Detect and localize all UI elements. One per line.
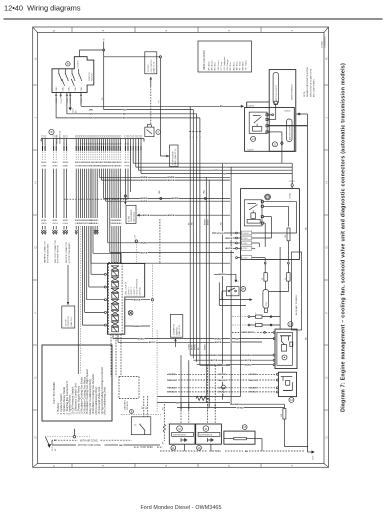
- relay box K4: [278, 372, 296, 396]
- svg-text:HIGH SPEC: HIGH SPEC: [140, 447, 153, 449]
- svg-text:BN: BN: [89, 114, 93, 116]
- svg-text:Green: Green: [218, 61, 220, 67]
- wires to diagnostic connectors: [41, 169, 78, 235]
- svg-text:C234/1: C234/1: [289, 181, 295, 183]
- node 18: [265, 194, 271, 200]
- oil pressure switch 10: [227, 287, 240, 296]
- svg-text:H: H: [34, 181, 38, 183]
- wire row BN/RD 198 with splices: [104, 169, 231, 201]
- relay1 pins: [273, 331, 275, 365]
- svg-text:WIRE COLOURS: WIRE COLOURS: [203, 50, 206, 70]
- connector ring C16: [134, 219, 160, 264]
- svg-text:WHICH ON FOR MODELS WITH: WHICH ON FOR MODELS WITH: [310, 68, 312, 97]
- svg-text:4 SHIFT 3: 4 SHIFT 3: [134, 287, 136, 295]
- box to adaptive damping: [170, 314, 182, 347]
- resistor A/C blower: [196, 396, 210, 400]
- svg-text:F8: F8: [262, 278, 264, 280]
- wire row 242.8: [108, 169, 234, 245]
- svg-text:5: 5: [74, 431, 76, 432]
- svg-text:BN/BU: BN/BU: [204, 219, 206, 225]
- svg-text:BK: BK: [119, 445, 123, 447]
- svg-text:SWITCH: SWITCH: [91, 73, 93, 81]
- cooling fan motor M1: [169, 424, 195, 444]
- svg-text:OG: OG: [44, 223, 47, 225]
- wire rows to main fusebox: [133, 151, 292, 176]
- svg-text:BK/VT: BK/VT: [149, 342, 156, 344]
- svg-text:NO: NO: [123, 109, 127, 111]
- long wire down to relay1: [279, 247, 280, 329]
- svg-text:BK/BU: BK/BU: [138, 338, 145, 340]
- wires to solenoid valve unit: [81, 169, 230, 326]
- solenoid unit labels: [126, 278, 142, 295]
- node junction AC: [73, 436, 75, 438]
- svg-text:BK/BN: BK/BN: [219, 374, 226, 376]
- svg-text:K: K: [325, 57, 329, 59]
- motor earth stubs: [185, 439, 263, 452]
- svg-text:Violet: Violet: [239, 61, 242, 66]
- ground G106 bottom right: [308, 450, 315, 460]
- svg-text:BK: BK: [222, 365, 226, 367]
- svg-text:SWITCHED SUPPLY: SWITCHED SUPPLY: [276, 84, 278, 102]
- connector stubs C234 left: [236, 231, 252, 259]
- svg-text:Lightgreen: Lightgreen: [223, 57, 226, 66]
- node 12: [289, 397, 294, 402]
- wire rows bottom center: [157, 401, 230, 408]
- svg-text:BN/YE: BN/YE: [215, 342, 222, 344]
- node 21: [272, 142, 277, 147]
- svg-text:LG: LG: [224, 67, 226, 70]
- relay pins: [266, 114, 268, 133]
- svg-text:BN/RD: BN/RD: [141, 201, 148, 203]
- svg-text:Orange: Orange: [227, 59, 229, 67]
- svg-text:HARNESS CONNECTOR: HARNESS CONNECTOR: [44, 241, 47, 263]
- svg-text:BN/RD: BN/RD: [195, 343, 197, 350]
- svg-text:B: B: [51, 130, 53, 134]
- svg-text:AUXILIARY FUSEBOX: AUXILIARY FUSEBOX: [295, 294, 298, 315]
- wire BN/OG row2: [67, 98, 197, 130]
- wire row BK/BK 177: [99, 169, 230, 227]
- svg-text:C104C: C104C: [61, 97, 63, 103]
- wire row BN/YE 180: [101, 169, 230, 182]
- ECU pins with numbers: [42, 136, 142, 161]
- box to instrument cluster: [160, 145, 178, 167]
- svg-text:BN: BN: [123, 114, 127, 116]
- svg-text:BN/WH: BN/WH: [133, 326, 141, 328]
- wire below relays: [230, 403, 284, 410]
- node B see also (top): [49, 129, 61, 144]
- svg-text:C234/7: C234/7: [242, 243, 247, 245]
- svg-text:CONTROL: CONTROL: [140, 287, 142, 296]
- svg-text:AIR CONDITIONING: AIR CONDITIONING: [313, 79, 316, 97]
- svg-text:NAW: NAW: [203, 190, 206, 194]
- svg-text:BN: BN: [176, 402, 180, 404]
- svg-text:VT/BU: VT/BU: [188, 344, 190, 350]
- fuse bottom right: [281, 409, 308, 448]
- svg-text:KEY TO ITEMS: KEY TO ITEMS: [52, 382, 56, 404]
- svg-text:BN/BU: BN/BU: [245, 355, 252, 357]
- relay K2 internals: [244, 200, 262, 226]
- relay K1 internals: [249, 112, 267, 133]
- svg-text:DIAGRAMS 5/6: DIAGRAMS 5/6: [58, 131, 61, 144]
- thermal switch top wires: [142, 396, 148, 417]
- svg-text:G104: G104: [73, 109, 75, 113]
- svg-text:C147: C147: [266, 302, 268, 306]
- svg-text:BN/BU: BN/BU: [141, 243, 148, 245]
- svg-text:BN/YE: BN/YE: [226, 238, 233, 240]
- svg-text:COMPUTER: COMPUTER: [68, 316, 70, 327]
- svg-text:5 ELEC PRESSURE: 5 ELEC PRESSURE: [137, 278, 139, 295]
- fusible link switched supply: [273, 72, 278, 104]
- svg-text:E: E: [34, 376, 38, 378]
- svg-text:DIAGRAM 9: DIAGRAM 9: [123, 400, 126, 410]
- solenoid dashed enclosure: [108, 263, 122, 335]
- border frame: [33, 27, 329, 467]
- svg-text:F: F: [325, 312, 329, 314]
- svg-text:VT/OG: VT/OG: [217, 233, 224, 235]
- box to fan temperature sender: [124, 202, 136, 223]
- svg-text:BN/YE: BN/YE: [207, 219, 209, 225]
- svg-text:E: E: [325, 376, 329, 378]
- node earth circle in solenoid unit: [128, 310, 133, 315]
- svg-text:G105: G105: [52, 447, 54, 451]
- svg-text:BK/BU: BK/BU: [169, 392, 176, 394]
- svg-text:BK/GN: BK/GN: [168, 380, 175, 382]
- svg-text:C16: C16: [134, 235, 136, 238]
- arrows for 95-97: [94, 230, 99, 234]
- node 11: [171, 445, 176, 450]
- node key-in circle: [66, 62, 70, 66]
- ground G104: [69, 92, 78, 113]
- svg-text:TO INSTRUMENT: TO INSTRUMENT: [172, 150, 174, 166]
- svg-text:OG: OG: [55, 223, 58, 225]
- svg-text:C104C/6: C104C/6: [78, 61, 80, 68]
- svg-text:RD: RD: [222, 173, 226, 175]
- wire row BU/YE to C234/5: [225, 247, 236, 250]
- svg-text:NOTE:: NOTE:: [304, 91, 306, 97]
- svg-text:F5: F5: [285, 278, 287, 280]
- svg-text:BU/YE: BU/YE: [226, 248, 233, 250]
- svg-text:BN/BU: BN/BU: [245, 365, 252, 367]
- module pin wires: [263, 202, 296, 247]
- svg-text:Brown: Brown: [212, 61, 214, 67]
- wire out BN/WH: [125, 324, 150, 327]
- svg-text:BK/BU: BK/BU: [219, 392, 226, 394]
- fan resistor box: [224, 431, 255, 444]
- fusible link battery supply: [287, 119, 293, 142]
- svg-text:2 SHIFT 1: 2 SHIFT 1: [128, 287, 130, 295]
- solenoid input pin rings: [104, 273, 106, 326]
- high spec label: [134, 447, 163, 449]
- svg-text:(DIAG 12-13): (DIAG 12-13): [133, 212, 136, 222]
- busbar RD right: [306, 114, 308, 452]
- multiway connector C: [263, 290, 269, 313]
- svg-text:BK/GN: BK/GN: [249, 380, 256, 382]
- svg-text:BK: BK: [235, 404, 239, 406]
- svg-text:C234/1B: C234/1B: [242, 233, 248, 235]
- wire row BN/YE 215.2 to fan temp box: [137, 214, 230, 218]
- wire relay output down: [268, 132, 283, 163]
- svg-text:BK/BN: BK/BN: [169, 374, 176, 376]
- wire row 201: [106, 169, 230, 203]
- dotted wire vertical mid: [156, 330, 158, 412]
- fuse F5: [269, 262, 291, 291]
- ignition switch 2: [52, 57, 94, 93]
- wire dashed VT continuation: [159, 219, 161, 264]
- node G splice: [222, 385, 226, 396]
- svg-text:SELF-TEST CONNECTOR: SELF-TEST CONNECTOR: [55, 240, 57, 263]
- svg-text:12•40 Wiring diagrams: 12•40 Wiring diagrams: [4, 4, 81, 13]
- svg-text:SUPPRESSOR: SUPPRESSOR: [173, 435, 187, 437]
- fuse F8: [262, 273, 267, 290]
- svg-text:LOW SPEC: LOW SPEC: [209, 451, 221, 453]
- ECU multiplug connector strip: [41, 138, 144, 140]
- ignition switch contact labels: [56, 86, 83, 92]
- dashes small bottom left of solenoid: [119, 377, 139, 399]
- svg-text:BK/BN: BK/BN: [250, 374, 257, 376]
- svg-text:BK: BK: [245, 451, 249, 453]
- motor feed wires: [181, 403, 217, 424]
- cooling fan motor M2: [196, 424, 222, 444]
- svg-text:SUPPRESSOR: SUPPRESSOR: [199, 435, 213, 437]
- wire colours legend box: [198, 41, 252, 72]
- svg-text:F18: F18: [285, 235, 287, 238]
- relay box K3 double border: [275, 329, 297, 369]
- svg-text:BN/YE: BN/YE: [134, 300, 141, 302]
- svg-text:VT/BU: VT/BU: [237, 407, 244, 409]
- svg-text:C234/5: C234/5: [242, 248, 247, 250]
- svg-text:BN/YE: BN/YE: [143, 215, 150, 217]
- resistor coil element: [162, 404, 165, 444]
- node splice ring: [159, 56, 161, 58]
- svg-text:BN/YE: BN/YE: [168, 215, 175, 217]
- wire pin to C205/1: [268, 101, 277, 119]
- wire VT to diode: [158, 58, 160, 156]
- svg-text:K: K: [34, 57, 38, 59]
- svg-text:BN/BU: BN/BU: [211, 355, 218, 357]
- wires solenoid to AC dashed box: [111, 334, 121, 376]
- svg-text:RD: RD: [222, 167, 226, 169]
- svg-text:SERVICE CONNECTOR: SERVICE CONNECTOR: [66, 241, 68, 263]
- svg-text:(FOR SETTING READJ): (FOR SETTING READJ): [68, 242, 71, 263]
- solenoid diode unit: [145, 125, 161, 137]
- svg-text:PANEL (DIAG 12-15): PANEL (DIAG 12-15): [174, 148, 177, 165]
- svg-text:OG: OG: [127, 162, 130, 164]
- svg-text:C234/8: C234/8: [242, 257, 247, 259]
- dotted wire across thermal switch: [121, 413, 161, 415]
- inline connector row 1: [232, 313, 280, 318]
- svg-text:OG: OG: [65, 223, 68, 225]
- svg-text:Silver: Silver: [236, 61, 238, 66]
- node stub 5: [74, 429, 76, 436]
- wire feed into module: [289, 163, 295, 188]
- svg-text:C104C: C104C: [56, 86, 58, 92]
- cooling fan relay box: [245, 105, 295, 151]
- node 14: [251, 136, 256, 141]
- node stub top: [103, 49, 105, 51]
- svg-text:C205/5: C205/5: [247, 149, 254, 151]
- svg-text:DASHED LINES DENOTE WIRING: DASHED LINES DENOTE WIRING: [306, 67, 309, 97]
- wire BK/BU to ground stub: [214, 273, 240, 283]
- solenoid valve unit outline: [108, 263, 145, 334]
- svg-text:BK/GN: BK/GN: [218, 380, 225, 382]
- wire row 252.5: [110, 169, 234, 255]
- svg-text:LIGHT SWITCH: LIGHT SWITCH: [151, 59, 153, 73]
- svg-text:TO FAN: TO FAN: [127, 215, 130, 222]
- svg-text:H: H: [325, 181, 329, 183]
- svg-text:C104C: C104C: [69, 86, 71, 92]
- wire row BN/YE to C234/3: [225, 236, 236, 240]
- wire out BN/YE with ring: [125, 263, 154, 340]
- svg-text:BK/BU: BK/BU: [250, 392, 257, 394]
- svg-text:C206/2: C206/2: [284, 111, 291, 113]
- svg-text:Grey: Grey: [221, 62, 223, 66]
- relay K3 internals: [280, 336, 293, 360]
- svg-text:1 MDL LOCK UP: 1 MDL LOCK UP: [126, 281, 128, 295]
- svg-text:BK/RD (BK/YE): BK/RD (BK/YE): [242, 332, 255, 334]
- wire bundle to motors: [181, 355, 215, 410]
- svg-text:(FOR FDM TESTER): (FOR FDM TESTER): [58, 245, 60, 263]
- svg-text:White: White: [242, 60, 245, 66]
- svg-text:TO ADAPTIVE: TO ADAPTIVE: [173, 323, 176, 336]
- long module return wire: [157, 247, 241, 396]
- wires oil switch loop: [219, 282, 252, 305]
- key to items legend: [42, 345, 112, 421]
- box to stop light switch: [145, 52, 157, 86]
- svg-text:RD: RD: [306, 226, 308, 230]
- aux fusebox outline: [292, 252, 302, 330]
- node B see also (bottom): [123, 400, 133, 413]
- svg-text:(DIAG 12-13): (DIAG 12-13): [153, 61, 156, 72]
- svg-text:Diagram 7: Engine management –: Diagram 7: Engine management – cooling f…: [341, 63, 347, 412]
- svg-text:BK/RD: BK/RD: [172, 198, 179, 200]
- wire 128 turn: [64, 169, 128, 200]
- wire to fan temp box: [124, 169, 126, 205]
- wire 130.6 down: [130, 151, 132, 192]
- svg-text:TO TRIP: TO TRIP: [66, 319, 68, 327]
- svg-text:WITHOUT AIR COND.: WITHOUT AIR COND.: [78, 444, 101, 447]
- svg-text:(Air Conditioning Only): (Air Conditioning Only): [103, 386, 107, 414]
- solenoid coils S1-S6: [111, 266, 119, 332]
- thermal switch box: [131, 417, 151, 435]
- svg-text:BK/BU: BK/BU: [219, 274, 226, 276]
- rows into relay1 upper: [232, 331, 274, 344]
- wire 30 feed down: [102, 51, 104, 110]
- connector stubs C102: [189, 129, 202, 138]
- svg-text:C205/4: C205/4: [248, 105, 255, 107]
- svg-text:BK/YE: BK/YE: [245, 360, 252, 362]
- wire battery feed from ignition switch: [79, 50, 160, 57]
- wire row to C234/7: [234, 242, 236, 244]
- svg-text:RD: RD: [214, 170, 218, 172]
- svg-text:BN: BN: [89, 109, 93, 111]
- wire BN to relay C205/4: [81, 98, 244, 130]
- wire with air cond: [52, 439, 132, 443]
- svg-text:BK/YE: BK/YE: [211, 360, 218, 362]
- fuse in module: [285, 228, 290, 262]
- svg-text:G106: G106: [313, 456, 315, 460]
- svg-text:Black: Black: [209, 61, 211, 66]
- svg-text:(DIAG 10-10): (DIAG 10-10): [178, 324, 181, 335]
- svg-text:C104C: C104C: [75, 86, 77, 92]
- svg-text:DAMPING: DAMPING: [175, 327, 178, 336]
- rows to relay1: [190, 354, 273, 368]
- svg-text:SEE ALSO: SEE ALSO: [126, 401, 129, 410]
- svg-text:(FOR FUEL/ENG BAY): (FOR FUEL/ENG BAY): [46, 243, 49, 263]
- svg-text:BN/BU: BN/BU: [215, 338, 222, 340]
- note text air conditioning: [304, 67, 316, 97]
- svg-text:SEE ALSO: SEE ALSO: [56, 134, 59, 144]
- svg-text:BN/YE: BN/YE: [168, 180, 175, 182]
- svg-text:RD: RD: [235, 338, 239, 340]
- svg-text:BK/BN: BK/BN: [169, 388, 176, 390]
- ground G105: [45, 437, 90, 451]
- wire BN/OG row1: [89, 108, 193, 129]
- svg-text:MAIN FUSEBOX: MAIN FUSEBOX: [290, 84, 293, 100]
- long wires down to fan area: [77, 169, 122, 374]
- svg-text:BK: BK: [123, 118, 127, 120]
- svg-text:BN: BN: [220, 106, 224, 108]
- ignition switch pins C104C: [55, 92, 83, 103]
- svg-text:C204B: C204B: [322, 41, 324, 48]
- svg-text:3 SHIFT 2: 3 SHIFT 2: [131, 287, 133, 295]
- svg-text:Red: Red: [233, 63, 235, 67]
- svg-text:BN/YE: BN/YE: [141, 252, 148, 254]
- dashed rows to relay2: [167, 373, 276, 394]
- wire without air cond: [52, 440, 160, 447]
- svg-text:BK/BN: BK/BN: [250, 388, 257, 390]
- box to trip computer: [62, 265, 75, 328]
- low spec bus: [160, 449, 305, 453]
- vertical bundle wires center: [188, 138, 231, 408]
- wire top entry solenoid unit: [120, 258, 122, 263]
- svg-text:C104C: C104C: [81, 86, 83, 92]
- relay2 pins: [276, 373, 278, 393]
- svg-text:WITH AIR COND.: WITH AIR COND.: [80, 439, 99, 442]
- svg-text:Pink: Pink: [230, 62, 232, 66]
- svg-text:F30: F30: [281, 414, 283, 417]
- node 18b: [197, 445, 202, 450]
- svg-text:RD: RD: [235, 342, 239, 344]
- node minus circle: [241, 287, 246, 292]
- wire BK row3: [56, 98, 200, 130]
- dotted wire vertical left: [79, 169, 81, 218]
- svg-text:Ford Mondeo Diesel - OWM3465: Ford Mondeo Diesel - OWM3465: [140, 505, 221, 511]
- svg-text:F: F: [34, 312, 38, 314]
- svg-text:C234/1: C234/1: [290, 193, 292, 199]
- wire stub 86: [268, 114, 273, 116]
- svg-text:TEMPERATURE: TEMPERATURE: [130, 209, 133, 222]
- stub wires inside module: [252, 233, 297, 248]
- wire VT dashed to solenoid: [150, 86, 152, 125]
- svg-text:C234/3: C234/3: [242, 238, 247, 240]
- wire C234/8 down: [252, 258, 266, 273]
- svg-text:(DIAG 12-9): (DIAG 12-9): [70, 316, 73, 326]
- relay module box U2: [241, 189, 300, 260]
- svg-text:C104C: C104C: [62, 86, 64, 92]
- module pins: [261, 201, 263, 225]
- svg-text:TO STOP: TO STOP: [148, 64, 150, 73]
- svg-text:Yellow: Yellow: [246, 60, 248, 66]
- inline connector row 2: [232, 322, 280, 327]
- wire colour labels row1: [41, 161, 131, 169]
- svg-text:BN/BU: BN/BU: [204, 344, 206, 350]
- wire C206/2 RD feed: [284, 111, 308, 115]
- wire bold feed to busbar: [268, 125, 307, 127]
- wire row VT/OG to C234/1B: [212, 231, 236, 235]
- svg-text:BK: BK: [54, 440, 58, 442]
- svg-text:COMBINED: COMBINED: [325, 36, 327, 48]
- main fusebox: [247, 70, 296, 152]
